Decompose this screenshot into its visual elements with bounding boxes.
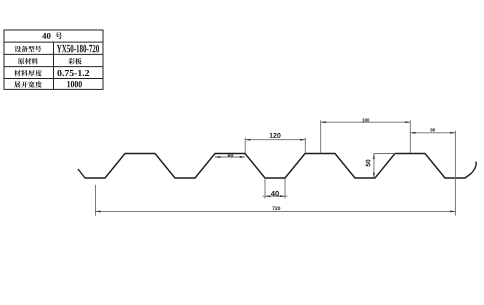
- dim 90 / 720 shared right extension line: [454, 131, 456, 216]
- table row 3 value: caiban: [68, 58, 81, 64]
- dim 40 extension lines: [265, 179, 285, 199]
- table row 4 value: 0.75-1.2: [57, 70, 89, 76]
- dim label 40: [271, 191, 279, 196]
- dim 90 line and arrows: [410, 132, 455, 134]
- dim 720 left extension line: [95, 185, 97, 216]
- table row 5 value: 1000: [67, 81, 82, 87]
- table row 2 label: shebei xinghao: [15, 46, 42, 52]
- table row 4 label: cailiao houdu: [14, 70, 42, 76]
- dim label 720: [272, 207, 280, 211]
- dim 720 line and arrows: [96, 210, 456, 212]
- dim 120 extension lines: [245, 138, 305, 153]
- dim 60 line and arrows on crest: [215, 156, 245, 158]
- dim 40 line and arrows: [263, 195, 288, 197]
- table row 3 label: yuan cailiao: [18, 58, 38, 64]
- dim 50 crest reference line: [374, 153, 396, 155]
- dim label 50 (rotated): [366, 160, 371, 167]
- dim 180 line and arrows: [321, 121, 411, 123]
- table header: 40 hao: [42, 32, 62, 39]
- spec table frame: [4, 30, 103, 89]
- dim label 120: [270, 133, 281, 138]
- dim 120 line and arrows: [245, 139, 305, 141]
- dim 50 vertical line and arrows: [373, 154, 375, 179]
- table row 2 value: YX50-180-720: [57, 45, 99, 53]
- dim 180 extension lines: [321, 120, 411, 153]
- dim label 60: [228, 153, 233, 157]
- dim label 180: [362, 118, 369, 121]
- roof panel profile outline: [78, 154, 476, 179]
- dim label 90: [430, 128, 435, 131]
- table row 5 label: zhankai kuandu: [14, 81, 42, 87]
